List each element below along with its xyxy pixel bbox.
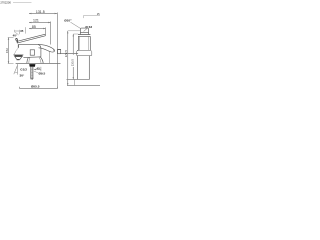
nozzle cone: [15, 57, 22, 59]
spout tip extension vertical: [49, 52, 51, 64]
shank left edge: [30, 67, 32, 78]
lever closed fat tip: [38, 44, 54, 52]
spout nozzle top line: [13, 54, 23, 56]
O9.5 leader: [34, 71, 39, 73]
column sides: [78, 36, 90, 50]
front spout underside: [58, 50, 79, 54]
nozzle aerator dark: [17, 59, 20, 60]
body bottom line: [23, 56, 41, 59]
front spout tip bump: [58, 50, 61, 54]
shank bottom: [30, 78, 33, 80]
svg-text:152: 152: [5, 48, 9, 53]
lever raised thin bar: [13, 34, 54, 63]
svg-text:2702200: 2702200: [0, 1, 11, 5]
svg-text:35: 35: [20, 29, 24, 33]
O10 leader: [71, 22, 81, 28]
counter line: [16, 63, 61, 65]
svg-text:30°: 30°: [20, 73, 25, 77]
tip oval: [53, 48, 54, 51]
extension line x50.5: [50, 22, 52, 45]
left height dim top tick: [8, 38, 14, 64]
svg-text:121: 121: [33, 19, 39, 23]
left height dim line: [8, 38, 10, 64]
dim 121 line: [29, 22, 51, 24]
small dim ext vertical: [24, 27, 26, 33]
30deg angled spray line: [14, 66, 18, 75]
escutcheon front: [77, 50, 92, 55]
header rule: [13, 2, 32, 4]
line B: [67, 85, 100, 87]
body left lower curve: [14, 48, 18, 55]
dim 172.5 line: [67, 31, 69, 86]
shank thread hatch: [31, 68, 33, 77]
body top edge: [18, 45, 41, 49]
extension line x57.5 long: [57, 13, 59, 89]
svg-text:172.5: 172.5: [64, 50, 68, 58]
top-right rule: [83, 16, 100, 18]
svg-text:133.5: 133.5: [71, 59, 75, 67]
hose right: [88, 56, 90, 80]
svg-text:Ø10″: Ø10″: [64, 19, 72, 23]
black gasket: [29, 64, 35, 67]
hose left: [77, 56, 79, 80]
lever back knob: [16, 38, 18, 43]
line A: [67, 79, 90, 81]
extension line x45.5: [45, 28, 47, 35]
dome flange lines: [78, 35, 90, 37]
dim 45 arrow: [34, 67, 41, 71]
body right edge: [40, 49, 42, 57]
body left edge: [17, 44, 19, 47]
small arc: [15, 33, 18, 36]
svg-text:15: 15: [97, 12, 100, 16]
bell left inner: [29, 57, 30, 63]
spout nozzle dark band: [14, 55, 22, 57]
dome neck: [80, 32, 88, 34]
svg-text:G1/2: G1/2: [20, 67, 27, 71]
svg-text:Ø9.5: Ø9.5: [39, 72, 46, 76]
shank right edge: [32, 67, 34, 78]
bell right: [40, 57, 43, 63]
dim 85 line: [29, 28, 46, 30]
svg-text:Ø55.5: Ø55.5: [31, 84, 40, 88]
small dim 35 line: [15, 30, 20, 32]
connector A-B: [74, 80, 76, 86]
dim 131.5 line: [29, 13, 57, 15]
O63 leader: [84, 29, 87, 32]
bell right inner: [39, 57, 41, 63]
30deg arc: [15, 71, 18, 74]
bottom base line: [20, 87, 58, 89]
dim 133.5 line: [72, 34, 74, 80]
bell left: [27, 58, 28, 64]
handle bar front: [81, 28, 89, 32]
body inner rect: [30, 50, 34, 55]
30deg extension vertical: [17, 64, 19, 75]
top extension ticks: [68, 31, 81, 34]
